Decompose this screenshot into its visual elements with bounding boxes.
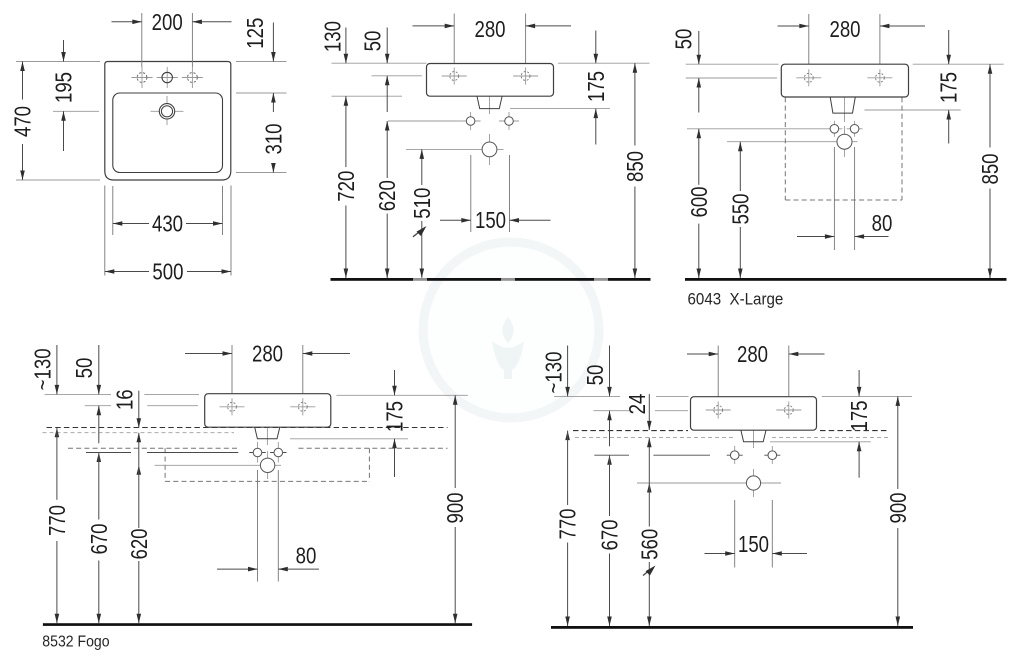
svg-text:50: 50	[361, 31, 386, 52]
svg-text:280: 280	[252, 342, 283, 367]
svg-text:720: 720	[334, 171, 359, 202]
svg-text:175: 175	[937, 72, 962, 103]
svg-text:125: 125	[243, 18, 268, 49]
svg-text:850: 850	[978, 153, 1003, 184]
svg-text:500: 500	[152, 260, 183, 285]
svg-text:150: 150	[738, 532, 769, 557]
svg-text:175: 175	[383, 401, 408, 432]
svg-text:~130: ~130	[542, 352, 567, 394]
svg-text:510: 510	[410, 188, 435, 219]
svg-text:50: 50	[672, 29, 697, 50]
svg-text:670: 670	[598, 519, 623, 550]
svg-text:770: 770	[556, 508, 581, 539]
svg-text:310: 310	[262, 123, 287, 154]
svg-text:150: 150	[475, 208, 506, 233]
svg-text:200: 200	[152, 10, 183, 35]
svg-text:195: 195	[52, 72, 77, 103]
svg-text:6043 X-Large: 6043 X-Large	[688, 290, 784, 309]
svg-text:175: 175	[584, 71, 609, 102]
svg-text:280: 280	[737, 342, 768, 367]
svg-text:50: 50	[583, 365, 608, 386]
svg-text:280: 280	[474, 17, 505, 42]
svg-text:16: 16	[113, 389, 138, 410]
svg-text:560: 560	[637, 529, 662, 560]
svg-text:175: 175	[847, 400, 872, 431]
svg-text:130: 130	[321, 21, 346, 52]
svg-text:600: 600	[687, 186, 712, 217]
svg-text:~130: ~130	[31, 348, 56, 390]
svg-text:80: 80	[296, 544, 317, 569]
svg-text:770: 770	[45, 505, 70, 536]
svg-text:900: 900	[443, 492, 468, 523]
svg-text:24: 24	[625, 393, 650, 414]
svg-text:900: 900	[886, 492, 911, 523]
svg-text:550: 550	[728, 193, 753, 224]
svg-text:470: 470	[11, 106, 36, 137]
svg-text:50: 50	[72, 358, 97, 379]
svg-text:670: 670	[87, 523, 112, 554]
svg-text:620: 620	[127, 528, 152, 559]
svg-text:850: 850	[623, 151, 648, 182]
svg-text:8532 Fogo: 8532 Fogo	[42, 634, 109, 651]
svg-text:80: 80	[872, 211, 893, 236]
svg-text:430: 430	[152, 212, 183, 237]
svg-text:620: 620	[375, 180, 400, 211]
svg-text:280: 280	[829, 17, 860, 42]
